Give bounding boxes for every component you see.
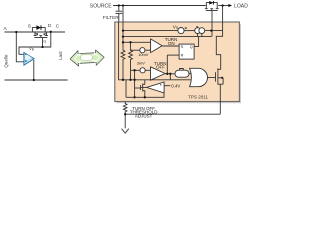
svg-text:C: C [56, 24, 60, 30]
svg-text:Last: Last [58, 51, 63, 60]
svg-text:10mV: 10mV [138, 52, 149, 57]
svg-text:ADJUST: ADJUST [135, 114, 153, 119]
svg-text:S: S [28, 23, 32, 29]
svg-text:R: R [181, 54, 184, 58]
svg-text:LOAD: LOAD [234, 3, 248, 9]
svg-text:VS: VS [173, 24, 179, 30]
svg-text:TPS 2011: TPS 2011 [188, 95, 208, 100]
svg-text:A: A [4, 26, 8, 32]
svg-text:VB: VB [29, 46, 34, 52]
svg-text:G: G [43, 40, 46, 44]
svg-text:ON: ON [168, 41, 175, 46]
svg-text:3mV: 3mV [137, 61, 145, 66]
svg-text:OFF: OFF [156, 65, 165, 70]
svg-text:Q: Q [190, 45, 193, 49]
svg-text:SOURCE: SOURCE [90, 3, 112, 9]
svg-text:FILTER: FILTER [103, 15, 120, 21]
svg-text:Quelle: Quelle [3, 54, 8, 68]
svg-text:D: D [48, 23, 52, 29]
svg-text:0.4V: 0.4V [171, 83, 180, 88]
svg-text:S: S [181, 45, 184, 49]
